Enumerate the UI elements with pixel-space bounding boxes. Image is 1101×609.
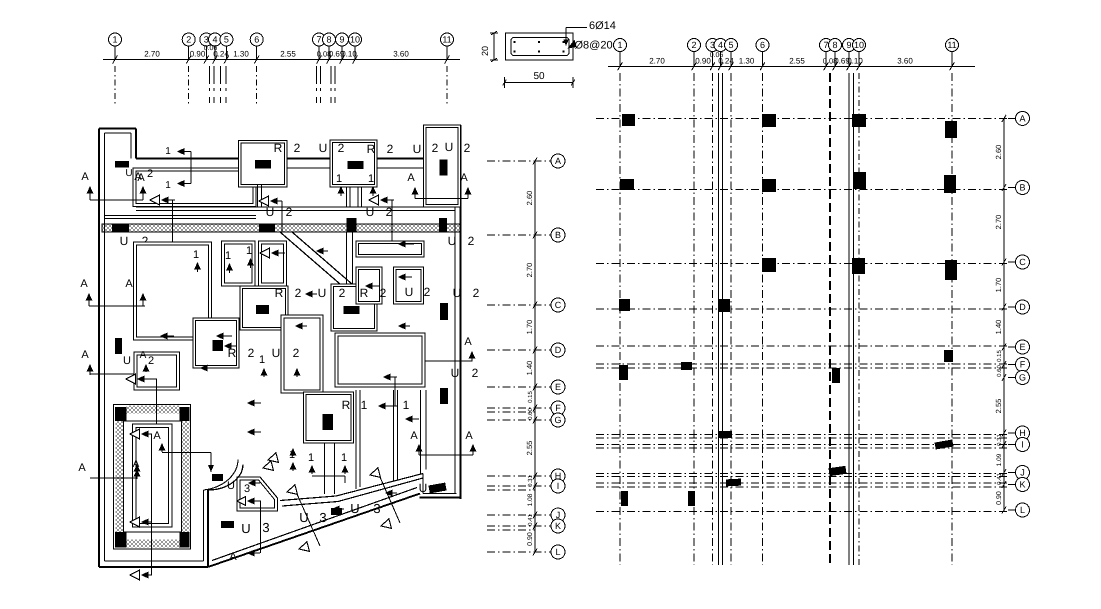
svg-text:C: C <box>1019 257 1026 267</box>
svg-text:7: 7 <box>316 35 321 45</box>
svg-text:A: A <box>81 349 89 361</box>
svg-text:U: U <box>448 234 457 248</box>
svg-text:A: A <box>464 336 472 348</box>
svg-text:1: 1 <box>225 250 231 262</box>
svg-text:Ø8@20: Ø8@20 <box>575 40 613 52</box>
svg-text:0.41: 0.41 <box>996 473 1003 485</box>
svg-text:R: R <box>275 286 284 300</box>
svg-text:2: 2 <box>248 346 255 360</box>
svg-text:1: 1 <box>165 180 171 191</box>
svg-text:L: L <box>555 547 560 557</box>
svg-text:1: 1 <box>246 245 252 257</box>
svg-text:U: U <box>125 168 132 179</box>
svg-text:10: 10 <box>350 35 360 45</box>
svg-text:0.15: 0.15 <box>996 350 1003 362</box>
svg-text:6Ø14: 6Ø14 <box>589 20 616 32</box>
svg-text:K: K <box>555 521 561 531</box>
svg-text:0.24: 0.24 <box>213 50 229 59</box>
svg-text:2: 2 <box>148 355 154 367</box>
svg-text:F: F <box>1020 360 1026 370</box>
svg-text:U: U <box>413 142 422 156</box>
svg-text:A: A <box>229 551 237 563</box>
svg-text:H: H <box>1019 428 1026 438</box>
svg-text:K: K <box>1019 480 1025 490</box>
svg-text:A: A <box>81 171 89 183</box>
svg-text:11: 11 <box>442 35 451 45</box>
svg-text:1: 1 <box>259 354 265 366</box>
svg-text:B: B <box>555 230 561 240</box>
svg-text:A: A <box>125 278 133 290</box>
svg-text:9: 9 <box>339 35 344 45</box>
svg-text:2: 2 <box>464 141 471 155</box>
svg-text:3.60: 3.60 <box>897 56 913 65</box>
svg-text:U: U <box>227 480 235 492</box>
svg-text:2: 2 <box>691 40 696 50</box>
svg-text:U: U <box>451 366 460 380</box>
svg-text:U: U <box>123 355 131 367</box>
svg-text:6: 6 <box>254 35 259 45</box>
svg-text:2: 2 <box>432 141 439 155</box>
svg-text:2: 2 <box>387 142 394 156</box>
svg-text:2.55: 2.55 <box>525 441 534 456</box>
svg-text:6: 6 <box>760 40 765 50</box>
svg-text:1: 1 <box>112 35 117 45</box>
svg-text:A: A <box>407 172 415 184</box>
svg-text:7: 7 <box>823 40 828 50</box>
svg-text:2: 2 <box>380 286 387 300</box>
svg-text:U: U <box>350 501 359 516</box>
svg-text:2.70: 2.70 <box>144 50 160 59</box>
svg-text:2.55: 2.55 <box>994 399 1003 414</box>
svg-text:E: E <box>1019 342 1025 352</box>
svg-text:9: 9 <box>846 40 851 50</box>
svg-text:2.70: 2.70 <box>525 263 534 278</box>
svg-text:1.40: 1.40 <box>994 320 1003 335</box>
svg-text:2: 2 <box>286 205 293 219</box>
svg-text:1: 1 <box>617 40 622 50</box>
svg-text:A: A <box>134 171 142 183</box>
svg-text:2.60: 2.60 <box>525 191 534 206</box>
svg-text:C: C <box>555 300 562 310</box>
svg-text:G: G <box>1019 373 1026 383</box>
svg-text:1: 1 <box>193 249 199 261</box>
svg-text:3: 3 <box>319 510 326 525</box>
svg-text:I: I <box>557 481 560 491</box>
svg-text:U: U <box>405 285 414 299</box>
svg-text:0.15: 0.15 <box>527 391 534 403</box>
svg-text:2.55: 2.55 <box>280 50 296 59</box>
svg-text:2.70: 2.70 <box>649 56 665 65</box>
svg-text:1: 1 <box>368 173 374 185</box>
svg-text:8: 8 <box>326 35 331 45</box>
svg-text:2: 2 <box>186 35 191 45</box>
svg-text:A: A <box>153 430 161 442</box>
svg-text:2: 2 <box>295 286 302 300</box>
svg-text:U: U <box>241 521 250 536</box>
svg-text:A: A <box>555 156 561 166</box>
svg-text:1: 1 <box>361 398 368 412</box>
svg-text:3: 3 <box>244 483 250 495</box>
svg-text:A: A <box>80 278 88 290</box>
svg-text:3.60: 3.60 <box>393 50 409 59</box>
svg-text:1: 1 <box>403 398 410 412</box>
svg-text:2: 2 <box>338 141 345 155</box>
svg-text:2: 2 <box>147 168 153 180</box>
svg-text:8: 8 <box>832 40 837 50</box>
svg-text:D: D <box>555 345 562 355</box>
svg-text:R: R <box>360 286 369 300</box>
svg-text:0.60: 0.60 <box>527 408 534 420</box>
svg-text:1.70: 1.70 <box>994 278 1003 293</box>
svg-text:D: D <box>1019 302 1026 312</box>
svg-text:1.08: 1.08 <box>527 493 534 506</box>
svg-text:B: B <box>1019 183 1025 193</box>
svg-text:0.41: 0.41 <box>527 514 534 526</box>
svg-text:0.10: 0.10 <box>847 56 863 65</box>
svg-text:10: 10 <box>854 40 864 50</box>
svg-text:2.60: 2.60 <box>994 145 1003 160</box>
svg-text:I: I <box>1021 440 1024 450</box>
svg-text:2: 2 <box>293 346 300 360</box>
svg-text:2: 2 <box>473 286 480 300</box>
svg-text:L: L <box>1020 505 1025 515</box>
svg-text:0.60: 0.60 <box>996 365 1003 377</box>
svg-text:2: 2 <box>339 286 346 300</box>
svg-text:4: 4 <box>212 35 217 45</box>
svg-text:2.55: 2.55 <box>789 56 805 65</box>
svg-text:E: E <box>555 382 561 392</box>
svg-text:3: 3 <box>262 520 269 535</box>
svg-text:U: U <box>419 481 428 495</box>
svg-text:5: 5 <box>224 35 229 45</box>
svg-text:50: 50 <box>533 71 545 82</box>
svg-text:A: A <box>1019 114 1025 124</box>
svg-text:2: 2 <box>472 366 479 380</box>
svg-text:U: U <box>318 286 327 300</box>
svg-text:3: 3 <box>373 501 380 516</box>
svg-text:J: J <box>1020 468 1025 478</box>
svg-text:1: 1 <box>336 173 342 185</box>
svg-text:0.31: 0.31 <box>996 434 1003 446</box>
svg-text:2: 2 <box>424 285 431 299</box>
svg-text:U: U <box>453 286 462 300</box>
svg-text:20: 20 <box>480 46 490 56</box>
svg-text:5: 5 <box>728 40 733 50</box>
svg-text:U: U <box>266 205 275 219</box>
svg-text:4: 4 <box>718 40 723 50</box>
svg-text:1: 1 <box>341 452 347 464</box>
svg-text:0.90: 0.90 <box>527 532 534 546</box>
svg-text:2: 2 <box>468 234 475 248</box>
svg-text:1.30: 1.30 <box>739 56 755 65</box>
svg-text:0.31: 0.31 <box>527 475 534 487</box>
svg-text:U: U <box>366 205 375 219</box>
svg-text:0.10: 0.10 <box>341 50 357 59</box>
svg-text:A: A <box>140 350 147 361</box>
svg-text:1.40: 1.40 <box>525 361 534 376</box>
svg-text:A: A <box>460 172 468 184</box>
svg-text:1: 1 <box>308 452 314 464</box>
svg-text:1: 1 <box>165 146 171 157</box>
svg-text:0.90: 0.90 <box>996 491 1003 505</box>
svg-text:F: F <box>555 403 561 413</box>
svg-text:R: R <box>274 141 283 155</box>
svg-text:R: R <box>367 142 376 156</box>
svg-text:1.30: 1.30 <box>233 50 249 59</box>
svg-text:A: A <box>465 430 473 442</box>
svg-text:U: U <box>120 234 129 248</box>
svg-text:A: A <box>410 430 418 442</box>
svg-text:A: A <box>78 462 86 474</box>
svg-text:11: 11 <box>947 40 956 50</box>
svg-text:0.24: 0.24 <box>718 56 734 65</box>
svg-text:2.70: 2.70 <box>994 215 1003 230</box>
svg-text:R: R <box>342 398 351 412</box>
svg-text:1.09: 1.09 <box>996 453 1003 466</box>
svg-text:1.70: 1.70 <box>525 320 534 335</box>
svg-text:2: 2 <box>294 141 301 155</box>
svg-text:U: U <box>445 140 454 154</box>
svg-text:U: U <box>319 141 328 155</box>
svg-text:U: U <box>272 346 281 360</box>
svg-text:G: G <box>554 415 561 425</box>
